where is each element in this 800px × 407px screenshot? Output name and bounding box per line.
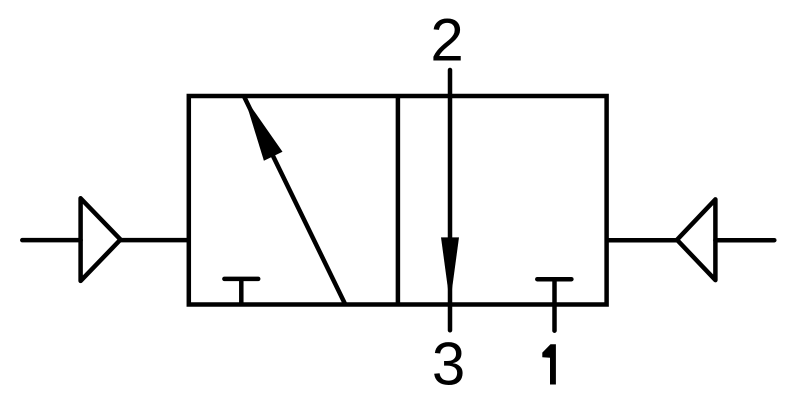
port 2 to port 3 flow line (right cell) xyxy=(448,70,453,330)
blocked port T (right cell) stem / port 1 stub xyxy=(552,279,557,331)
wire left pilot to valve body xyxy=(120,238,189,243)
blocked port T (left cell) bar xyxy=(224,277,258,282)
flow arrowhead down (right cell) xyxy=(441,237,459,304)
wire valve body to right pilot xyxy=(607,238,677,243)
svg-text:2: 2 xyxy=(430,6,463,73)
wire right pilot supply xyxy=(715,238,774,243)
port label 1 xyxy=(542,344,556,384)
svg-text:3: 3 xyxy=(432,330,465,397)
flow path arrow shaft (left cell, diagonal) xyxy=(244,97,345,305)
valve body outline xyxy=(189,96,607,305)
pilot actuator triangle left xyxy=(81,198,121,281)
blocked port T (right cell) bar xyxy=(537,277,571,282)
valve position divider xyxy=(396,96,401,305)
flow path arrowhead (left cell) xyxy=(244,97,282,161)
wire left pilot supply xyxy=(22,238,80,243)
pilot actuator triangle right xyxy=(677,199,715,280)
blocked port T (left cell) stem xyxy=(239,279,244,305)
